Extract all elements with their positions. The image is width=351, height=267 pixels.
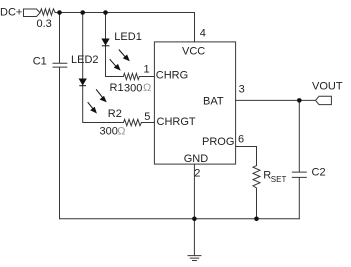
svg-text:VOUT: VOUT — [312, 81, 343, 93]
svg-text:GND: GND — [184, 153, 209, 165]
svg-text:2: 2 — [194, 167, 200, 179]
svg-text:3: 3 — [239, 83, 245, 95]
svg-text:C2: C2 — [312, 167, 326, 179]
svg-text:1: 1 — [144, 64, 150, 76]
svg-text:BAT: BAT — [203, 96, 224, 108]
svg-text:R2: R2 — [108, 108, 122, 120]
svg-text:300: 300 — [100, 126, 118, 138]
svg-text:VCC: VCC — [182, 46, 205, 58]
svg-text:4: 4 — [200, 28, 206, 40]
svg-text:Ω: Ω — [143, 82, 151, 94]
svg-text:6: 6 — [238, 134, 244, 146]
svg-text:LED1: LED1 — [114, 31, 142, 43]
svg-text:300: 300 — [124, 83, 142, 95]
svg-text:Ω: Ω — [117, 126, 125, 138]
svg-text:R1: R1 — [110, 82, 124, 94]
svg-text:C1: C1 — [33, 56, 47, 68]
svg-text:0.3: 0.3 — [37, 18, 52, 30]
svg-text:PROG: PROG — [202, 136, 234, 148]
svg-text:CHRGT: CHRGT — [157, 116, 196, 128]
svg-text:5: 5 — [144, 111, 150, 123]
svg-text:LED2: LED2 — [71, 54, 99, 66]
svg-text:CHRG: CHRG — [156, 70, 188, 82]
svg-text:DC+: DC+ — [0, 7, 22, 19]
svg-text:SET: SET — [271, 175, 287, 184]
